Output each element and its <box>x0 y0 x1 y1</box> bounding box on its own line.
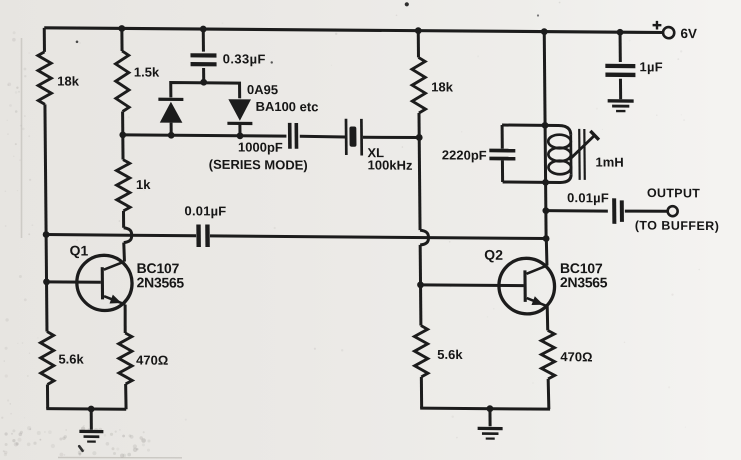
label 1k <box>136 177 151 192</box>
wire V4 to output node <box>544 182 547 210</box>
svg-text:0.01µF: 0.01µF <box>184 203 226 218</box>
wire diode top tee <box>171 83 240 99</box>
crystal XL plates <box>345 119 363 156</box>
capacitor C4 2220pF <box>489 149 515 161</box>
label Q2 <box>484 247 503 263</box>
node rail-tank junction <box>541 28 548 35</box>
wire Q1 base lead <box>47 280 101 283</box>
label 0.33uF <box>223 51 266 66</box>
wire 0.33uF top stub <box>202 29 205 52</box>
wire 1uF bottom stub <box>619 79 622 100</box>
wire tank bottom-left <box>503 181 546 184</box>
transistor Q2 collector stroke <box>526 265 547 274</box>
svg-text:1mH: 1mH <box>595 154 623 169</box>
wire line cap-to-crystal <box>300 135 345 139</box>
node diode split junction <box>200 79 207 86</box>
transistor Q2 base bar <box>523 270 526 302</box>
wire top supply rail <box>44 28 663 33</box>
wire V1 bottom segment <box>46 384 49 408</box>
transistor Q1 circle <box>77 255 133 311</box>
label BA100 etc <box>255 99 318 115</box>
capacitor C1 0.33uF <box>190 53 216 66</box>
svg-text:18k: 18k <box>57 73 80 88</box>
ground left <box>79 430 103 443</box>
wire coil bottom corner <box>546 174 572 183</box>
wire V3 bottom <box>420 377 423 408</box>
node V3-base junction <box>417 281 424 288</box>
label XL <box>367 145 384 160</box>
speck after 0.33uF label <box>271 61 273 63</box>
inductor L1 loop1 <box>548 135 571 149</box>
wire V3 mid3 <box>419 245 422 285</box>
wire V3 top segment <box>417 31 420 58</box>
wire D1 bottom stub <box>170 123 173 136</box>
wire V2 top segment <box>120 28 123 51</box>
node tank top junction <box>542 122 549 129</box>
label 100kHz <box>368 157 413 172</box>
label BC107 left <box>137 260 180 276</box>
wire V4 tank segment <box>544 125 548 182</box>
svg-text:2220pF: 2220pF <box>442 147 487 162</box>
svg-text:5.6k: 5.6k <box>437 347 463 362</box>
resistor 470R left <box>119 333 133 384</box>
wire tank left upper <box>501 125 504 149</box>
resistor 18k right <box>412 57 426 113</box>
wire Q2 emitter bottom <box>547 379 551 409</box>
transistor Q1 base bar <box>101 267 104 299</box>
svg-text:BA100 etc: BA100 etc <box>255 99 318 115</box>
wire diode line left <box>123 135 287 136</box>
wire tank left lower <box>501 160 504 182</box>
label 0A95 <box>247 82 278 97</box>
label Q1 <box>69 242 88 258</box>
transistor Q1 emitter arrow <box>109 295 121 304</box>
diode D1 0A95 cathode bar <box>158 98 183 101</box>
ground right <box>478 427 503 440</box>
label 2N3565 right <box>560 274 608 290</box>
wire V2 mid segment <box>121 111 124 134</box>
wire V3 mid1 <box>417 113 420 137</box>
node output junction <box>542 207 549 214</box>
crystal XL body <box>349 126 356 146</box>
node V1-coupling junction <box>43 231 50 238</box>
inductor trimmer arrow <box>569 131 599 160</box>
label 0.01uF right <box>567 190 609 205</box>
resistor 18k left <box>38 52 52 105</box>
wire V2 below junction <box>121 135 124 160</box>
wire hop over coupling line at V3 <box>420 230 429 245</box>
svg-text:(SERIES MODE): (SERIES MODE) <box>209 157 308 173</box>
ground 1uF <box>608 99 634 112</box>
label 5.6k right <box>437 347 463 362</box>
diode D2 BA100 cathode bar <box>227 122 252 125</box>
svg-text:1.5k: 1.5k <box>134 64 160 79</box>
label 5.6k left <box>58 351 84 366</box>
label 18k left <box>57 73 80 88</box>
wire V2 to hop <box>122 211 125 228</box>
node V3-crystal-line junction <box>416 134 423 141</box>
wire bottom-left <box>46 407 126 411</box>
svg-text:0A95: 0A95 <box>247 82 278 97</box>
node rail-1uF junction <box>617 29 624 36</box>
resistor 1k <box>116 160 130 211</box>
node ground-right junction <box>487 405 494 412</box>
wire Q2 base lead <box>421 283 524 287</box>
svg-text:18k: 18k <box>431 79 454 94</box>
node rail-0.33uF junction <box>200 26 207 33</box>
wire V4 output-to-coupling <box>544 211 547 239</box>
wire Q2 emitter down <box>546 306 550 330</box>
svg-text:2N3565: 2N3565 <box>137 274 185 290</box>
label 0.01uF left <box>184 203 226 218</box>
label 1uF <box>639 59 663 74</box>
wire V1 middle segment <box>45 104 47 331</box>
svg-text:6V: 6V <box>680 26 697 41</box>
node D2-line junction <box>237 132 244 139</box>
label 470R left <box>136 352 168 367</box>
svg-text:470Ω: 470Ω <box>560 349 592 364</box>
svg-text:OUTPUT: OUTPUT <box>647 186 700 200</box>
svg-text:2N3565: 2N3565 <box>560 274 608 290</box>
svg-text:0.01µF: 0.01µF <box>567 190 609 205</box>
capacitor C5 0.01uF output <box>612 198 624 224</box>
diode D1 0A95 triangle <box>160 102 183 123</box>
capacitor C2 1000pF <box>288 123 298 149</box>
terminal 6V <box>663 27 674 38</box>
resistor 1.5k <box>115 51 129 112</box>
wire V1 top segment <box>43 28 46 52</box>
svg-text:1000pF: 1000pF <box>238 139 283 154</box>
wire crystal-to-V3 <box>363 135 419 139</box>
label OUTPUT <box>647 186 700 200</box>
resistor 5.6k right <box>414 325 428 376</box>
node D1-line junction <box>168 132 175 139</box>
resistor 470R right <box>541 330 555 379</box>
svg-text:1µF: 1µF <box>639 59 663 74</box>
label 18k right <box>431 79 454 94</box>
wire output line left <box>546 209 608 212</box>
label TO BUFFER <box>635 218 720 233</box>
node V2-diode-line junction <box>119 131 126 138</box>
capacitor C3 0.01uF <box>196 224 210 247</box>
resistor 5.6k left <box>40 331 54 384</box>
node Q2 collector junction <box>543 235 550 242</box>
svg-text:470Ω: 470Ω <box>136 352 168 367</box>
label 470R right <box>560 349 592 364</box>
wire tank top-left <box>502 124 545 127</box>
svg-text:5.6k: 5.6k <box>58 351 84 366</box>
wire ground-left stub <box>90 409 93 430</box>
wire bottom-right <box>420 408 550 409</box>
capacitor C6 1uF <box>605 64 635 77</box>
wire D2 bottom stub <box>238 125 241 136</box>
wire coupling line left <box>46 235 196 236</box>
transistor Q1 emitter stroke <box>104 296 125 304</box>
wire coupling line right <box>210 236 546 239</box>
svg-text:Q1: Q1 <box>69 242 88 258</box>
inductor core lines <box>579 129 585 180</box>
label 1.5k <box>134 64 160 79</box>
wire V2 collector segment <box>122 243 126 262</box>
diode D2 BA100 triangle <box>228 99 251 121</box>
transistor Q1 collector stroke <box>104 261 125 269</box>
node rail-R18kR junction <box>415 27 422 34</box>
transistor Q2 emitter arrow <box>531 296 543 305</box>
inductor L1 loop2 <box>548 148 571 162</box>
label 2N3565 left <box>137 274 185 290</box>
terminal OUTPUT <box>668 206 678 216</box>
label series mode <box>209 157 308 173</box>
wire output line right <box>625 209 667 213</box>
label 1000pF <box>238 139 283 154</box>
label 1mH <box>595 154 623 169</box>
wire coil top corner <box>545 125 571 135</box>
wire Q1 emitter bottom <box>124 384 127 409</box>
svg-text:Q2: Q2 <box>484 247 503 263</box>
label 2220pF <box>442 147 487 162</box>
svg-text:0.33µF: 0.33µF <box>223 51 266 66</box>
inductor L1 spine <box>569 135 572 174</box>
wire V3 mid4 <box>419 285 422 326</box>
wire Q1 emitter down <box>123 305 126 333</box>
wire Q2 collector up <box>545 239 549 266</box>
node V1-base junction <box>43 278 50 285</box>
node rail-R2 junction <box>118 25 125 32</box>
wire 0.33uF bottom stub <box>202 68 205 82</box>
node tank bottom junction <box>542 179 549 186</box>
label BC107 right <box>560 260 603 276</box>
label 6V <box>680 26 697 41</box>
transistor Q2 circle <box>499 258 555 314</box>
svg-text:100kHz: 100kHz <box>368 157 413 172</box>
wire V3 mid2 <box>418 137 422 230</box>
transistor Q2 emitter stroke <box>527 298 547 306</box>
svg-text:1k: 1k <box>136 177 151 192</box>
wire hop over coupling line at V2 <box>124 228 132 243</box>
wire ground-right stub <box>488 409 491 427</box>
wire 1uF top stub <box>619 32 622 62</box>
svg-text:(TO BUFFER): (TO BUFFER) <box>635 218 720 233</box>
label + polarity <box>653 21 662 30</box>
inductor L1 loop3 <box>548 161 571 175</box>
wire V4 top segment <box>543 32 547 126</box>
node ground-left junction <box>88 406 95 413</box>
